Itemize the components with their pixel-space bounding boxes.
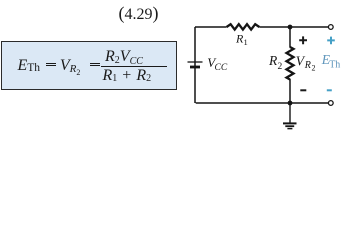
svg-text:2: 2 — [312, 64, 316, 73]
svg-text:1: 1 — [244, 37, 248, 47]
svg-text:R: R — [304, 60, 311, 71]
svg-text:R: R — [268, 53, 278, 68]
svg-text:2: 2 — [278, 62, 283, 72]
svg-text:Th: Th — [329, 60, 340, 71]
svg-text:CC: CC — [215, 63, 228, 73]
